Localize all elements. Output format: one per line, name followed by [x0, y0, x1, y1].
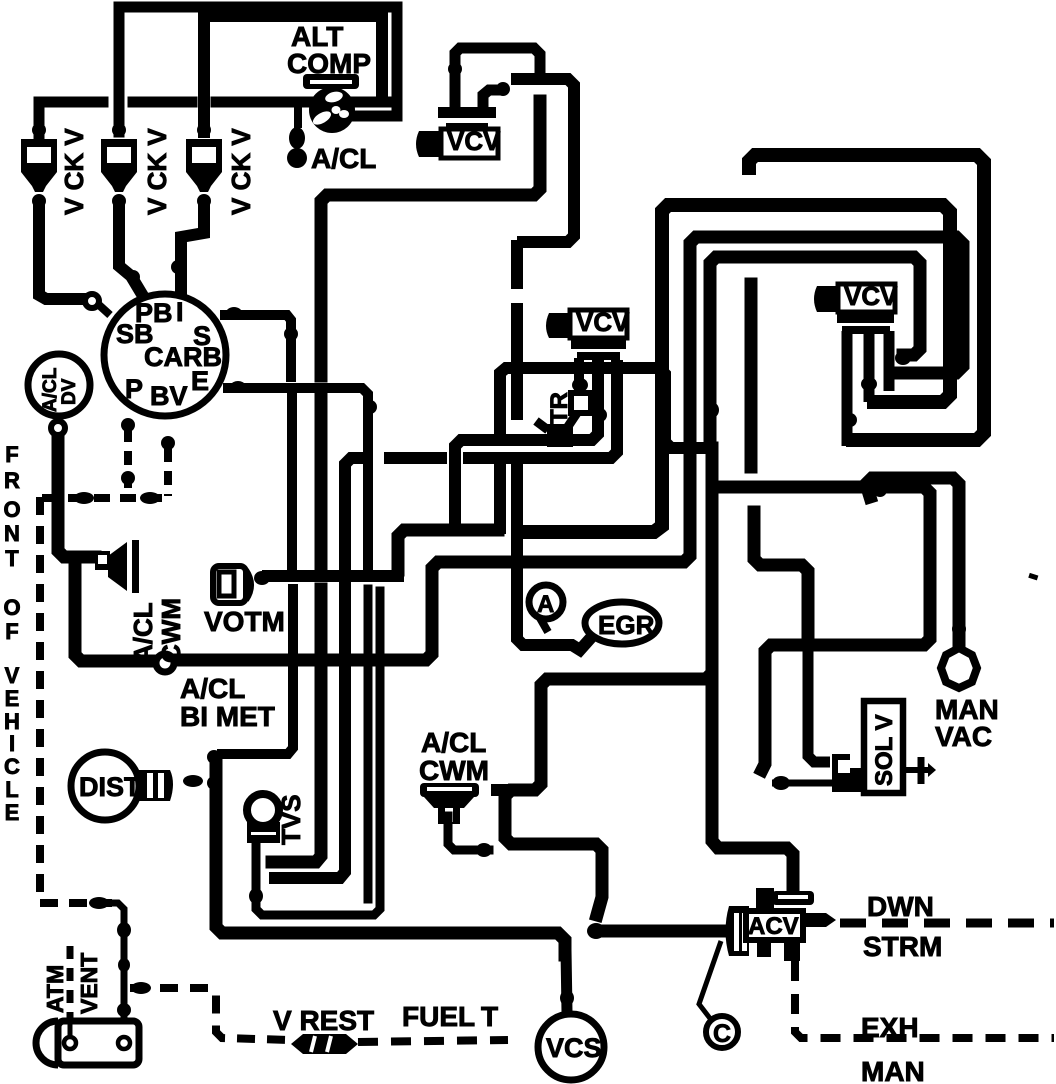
svg-text:L: L: [5, 777, 18, 802]
wire y931 to ACV: [597, 925, 729, 938]
node on VCV1 left wire: [448, 62, 462, 76]
wire check valve 3 to CARB PB/I: [181, 205, 204, 290]
wire VCV1 left leg loop to x574: [455, 48, 540, 108]
stray mark: [1028, 573, 1038, 581]
svg-text:N: N: [4, 521, 20, 546]
svg-text:DWN: DWN: [867, 891, 934, 922]
node ACV line west cap: [587, 923, 605, 939]
wire V2 from VCV1 riser down to TVS: [321, 101, 540, 376]
check valve V CK V 1: [21, 139, 57, 192]
wire x751 upper vertical: [745, 284, 758, 467]
svg-text:COMP: COMP: [287, 48, 371, 79]
dashed DWN STRM: [840, 919, 1054, 928]
wire nest4: [710, 257, 920, 444]
node at CARB E port: [230, 381, 246, 393]
wire A/CL DV down: [58, 438, 95, 557]
node on MAN VAC riser: [952, 621, 966, 637]
wire CARB S port to vertical V1: [225, 315, 291, 377]
node at DIST corner: [207, 750, 221, 764]
wire x712 main vertical with branches: [505, 448, 712, 915]
svg-text:VOTM: VOTM: [204, 606, 285, 637]
node above check valve 1: [32, 123, 46, 137]
dashed ATM VENT stub: [67, 946, 74, 1018]
node below check valve 1: [32, 194, 46, 208]
VCS circle: [538, 1014, 604, 1080]
ATM VENT canister: [36, 1021, 139, 1065]
EGR oval: [585, 602, 659, 644]
node below TVS: [249, 888, 263, 904]
FRONT OF VEHICLE stacked text: [3, 442, 20, 825]
CARB circle: [104, 294, 226, 416]
ALT COMP pulley: [303, 74, 359, 133]
A/CL dropper at pulley: [287, 102, 307, 168]
wire MAN VAC line: [866, 478, 959, 645]
svg-text:CARB: CARB: [144, 342, 222, 372]
svg-text:VCS: VCS: [546, 1033, 602, 1063]
dashed vertical x40 front-of-vehicle: [36, 497, 44, 892]
wire BI MET chain to ACV top: [712, 679, 793, 893]
wire ALT COMP outer loop from check valve V CK V 2: [119, 7, 397, 132]
diamond on dashed y988: [131, 982, 151, 994]
svg-text:O: O: [3, 497, 20, 522]
svg-text:F: F: [5, 619, 18, 644]
svg-text:O: O: [3, 595, 20, 620]
node on E line: [363, 400, 377, 414]
svg-text:A/CL: A/CL: [311, 143, 376, 174]
CARB BV dashed down: [164, 448, 172, 496]
svg-text:R: R: [4, 468, 20, 493]
dashed y903: [40, 899, 112, 907]
dashed V REST line east: [358, 1040, 508, 1042]
node on ATM feeder upper: [117, 922, 131, 938]
svg-text:V CK V: V CK V: [226, 128, 256, 215]
svg-text:P: P: [125, 374, 143, 404]
wire inner loop check valve 3 to top: [204, 16, 382, 132]
svg-text:CWM: CWM: [156, 598, 186, 663]
node on VCV2 mid leg: [593, 408, 607, 422]
node at DIST junction: [207, 776, 221, 790]
VCV 1 (top middle): [416, 107, 498, 158]
VCV2 TR assembly: [536, 358, 591, 447]
check valve V CK V 3: [186, 139, 222, 192]
wire DIST junction vertical: [216, 760, 565, 955]
CARB P dashed down: [124, 428, 132, 496]
node nest4 left stub end: [705, 402, 719, 418]
node at CARB S port: [226, 307, 242, 319]
svg-text:T: T: [481, 1001, 498, 1032]
wire VCV1 right leg stub: [483, 90, 498, 108]
wire x805 tee zig: [754, 512, 808, 645]
svg-text:F: F: [5, 442, 18, 467]
svg-text:MAN: MAN: [861, 1056, 925, 1084]
C circle: [699, 941, 738, 1048]
svg-text:A/CL: A/CL: [128, 602, 158, 663]
DIST connector barrel: [139, 770, 173, 801]
wire B-line y=458 from V3: [390, 452, 441, 464]
wire x517 stub from nest4 top: [511, 246, 523, 283]
node on S line: [284, 327, 298, 341]
wire stub cap y790: [497, 784, 511, 796]
node on CWM bottom wire: [476, 843, 492, 857]
svg-text:A/CL: A/CL: [421, 727, 486, 758]
node below check valve 2: [112, 194, 126, 208]
svg-text:FUEL: FUEL: [402, 1001, 475, 1032]
svg-text:C: C: [713, 1020, 731, 1048]
svg-text:T: T: [5, 546, 19, 571]
svg-text:A/CL: A/CL: [40, 367, 61, 412]
svg-text:V CK V: V CK V: [59, 128, 89, 215]
svg-text:VCV: VCV: [576, 307, 630, 337]
ring connector BI MET: [156, 654, 174, 672]
svg-text:ATM: ATM: [42, 965, 68, 1013]
svg-text:A/CL: A/CL: [180, 673, 245, 704]
node on VCS riser: [560, 990, 574, 1006]
wire y530 run VOTM riser to nest2 left: [398, 530, 498, 570]
node VCV1 right stub end: [496, 82, 510, 96]
svg-text:EGR: EGR: [598, 610, 655, 640]
wire x517 lower: B-line down through EGR corner: [511, 466, 523, 527]
svg-text:VCV: VCV: [844, 281, 898, 311]
wire DV branch down to BI MET: [75, 562, 150, 661]
V REST hexagon: [291, 1034, 358, 1054]
svg-text:E: E: [5, 800, 20, 825]
node at CARB I wire: [171, 260, 185, 274]
dashed lines: [40, 418, 1054, 1042]
DIST circle: [71, 752, 139, 820]
svg-text:VENT: VENT: [76, 953, 102, 1014]
wire A-line y=440 TR line: [455, 366, 598, 527]
VCV 3 (right): [814, 284, 895, 446]
MAN VAC pear: [941, 648, 977, 688]
wire CARB E port to vertical V4a: [228, 388, 368, 566]
svg-text:V: V: [5, 663, 20, 688]
dashed y988 east: [130, 988, 291, 1040]
node on ATM feeder lower: [117, 1003, 131, 1017]
node above check valve 2: [112, 123, 126, 137]
wire VOTM line: [268, 570, 398, 582]
svg-text:A: A: [537, 591, 554, 618]
wire V3 from B-line down to TVS: [275, 458, 361, 878]
svg-text:EXH: EXH: [861, 1012, 919, 1043]
A circle: [529, 585, 563, 632]
svg-text:STRM: STRM: [863, 931, 942, 962]
svg-text:BI MET: BI MET: [180, 701, 275, 732]
A/CL DV circle: [28, 354, 90, 416]
svg-text:V CK V: V CK V: [142, 128, 172, 215]
dashed ACV down leg: [795, 961, 1054, 1038]
SOL V assembly: [772, 651, 936, 793]
diamond on dashed y903: [89, 897, 109, 909]
node at nest4 east end: [895, 351, 911, 365]
svg-text:SOL V: SOL V: [871, 714, 898, 786]
node on VCV2 left leg: [572, 378, 588, 392]
wire y487 lineA east: [712, 487, 930, 770]
svg-text:CWM: CWM: [419, 755, 489, 786]
node on VCV3 mid leg: [861, 377, 877, 391]
svg-text:DIST: DIST: [79, 772, 141, 802]
svg-text:I: I: [176, 297, 184, 327]
ACV assembly: [726, 888, 837, 961]
svg-text:ACV: ACV: [748, 913, 799, 940]
VOTM component: [213, 566, 270, 603]
wire long horizontal y=102 valve1 line: [39, 102, 103, 135]
ring connector at SB: [85, 294, 99, 308]
svg-text:TVS: TVS: [276, 794, 306, 845]
node hook on lineA: [873, 483, 887, 497]
ring connector below DV: [51, 421, 65, 435]
svg-text:VAC: VAC: [935, 721, 992, 752]
wire check valve 2 to CARB PB: [119, 205, 140, 291]
svg-text:VCV: VCV: [447, 126, 501, 156]
wire VCS riser: [566, 950, 567, 1012]
wire A/CL CWM bottom wire: [448, 816, 489, 850]
wire x500 link B to y533: [494, 463, 506, 528]
wire y368 run to x665 and down to junction: [500, 368, 706, 448]
check valve V CK V 2: [101, 139, 137, 192]
node on VCV3 left leg: [843, 413, 857, 427]
svg-text:E: E: [5, 686, 20, 711]
wire V4b TVS riser: [256, 591, 380, 915]
rotated labels (read bottom-up): [40, 128, 898, 1014]
wire A/CL BI MET chain east: [177, 548, 690, 660]
svg-text:C: C: [4, 754, 20, 779]
svg-text:BV: BV: [150, 381, 188, 411]
node below check valve 3: [197, 194, 211, 208]
solid link to ATM VENT: [108, 903, 124, 1018]
svg-text:I: I: [9, 731, 15, 756]
node on ATM feeder mid: [118, 958, 130, 972]
wire V1 lower: [287, 398, 297, 566]
wire nest1 outer: [749, 155, 984, 440]
svg-text:E: E: [191, 366, 209, 396]
node DIST connector: [183, 775, 203, 787]
node at CARB PB wire: [126, 270, 140, 284]
svg-text:TR: TR: [546, 392, 573, 424]
wire nest3: [690, 237, 963, 552]
A/CL CWM top component: [95, 540, 139, 593]
svg-text:DV: DV: [59, 378, 80, 405]
dashed horizontal y498: [42, 494, 168, 502]
node above check valve 3: [197, 123, 211, 137]
TVS component: [247, 794, 280, 843]
wire check valve 1 to CARB SB: [39, 205, 84, 299]
svg-text:V REST: V REST: [273, 1005, 374, 1036]
VCV 2 (middle): [546, 310, 627, 360]
